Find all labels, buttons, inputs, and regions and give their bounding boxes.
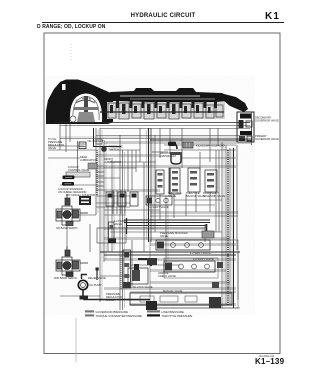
svg-text:GOVERNOR VALVE: GOVERNOR VALVE <box>255 119 279 123</box>
svg-text:GOVERNOR VALVE: GOVERNOR VALVE <box>255 137 279 141</box>
